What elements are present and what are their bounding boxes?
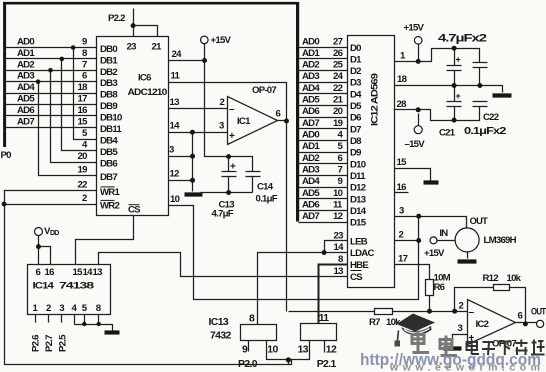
svg-text:OUT: OUT [531,307,546,318]
svg-text:13: 13 [298,345,309,356]
svg-text:P2.1: P2.1 [317,359,337,370]
svg-text:D3: D3 [350,78,361,89]
svg-text:7432: 7432 [210,331,232,342]
svg-text:0.1μF: 0.1μF [256,194,278,205]
svg-text:HBE: HBE [350,260,369,271]
svg-text:13: 13 [170,97,180,108]
svg-text:27: 27 [333,36,343,47]
svg-text:AD6: AD6 [17,105,34,116]
svg-text:24: 24 [333,71,344,82]
svg-text:2: 2 [82,193,87,204]
svg-text:DD: DD [50,230,59,237]
svg-text:WR1: WR1 [100,187,120,198]
svg-text:AD4: AD4 [17,82,35,93]
svg-text:D6: D6 [350,113,361,124]
svg-text:21: 21 [152,42,163,53]
svg-text:21: 21 [333,95,344,106]
svg-text:14: 14 [83,267,94,278]
svg-text:AD5: AD5 [302,188,320,199]
svg-text:P2.0: P2.0 [238,359,258,370]
svg-text:22: 22 [333,83,343,94]
svg-text:9: 9 [82,37,87,48]
svg-text:AD7: AD7 [302,211,319,222]
svg-text:LEB: LEB [350,237,368,248]
svg-text:8: 8 [249,314,255,325]
svg-text:23: 23 [334,231,344,242]
svg-text:AD7: AD7 [17,116,34,127]
svg-text:23: 23 [127,42,137,53]
svg-text:AD1: AD1 [302,48,320,59]
svg-text:AD3: AD3 [302,165,319,176]
svg-text:DB7: DB7 [100,172,117,183]
svg-text:IC1: IC1 [237,116,251,127]
svg-text:AD6: AD6 [302,106,319,117]
svg-text:AD6: AD6 [302,199,319,210]
svg-text:13: 13 [334,266,344,277]
svg-text:D15: D15 [350,218,367,229]
svg-text:–15V: –15V [405,139,426,150]
svg-text:10: 10 [267,345,278,356]
svg-text:AD3: AD3 [17,71,34,82]
svg-text:24: 24 [172,49,183,60]
svg-text:25: 25 [333,60,344,71]
svg-text:15: 15 [397,157,408,168]
svg-text:6: 6 [82,71,87,82]
svg-text:0.1μFx2: 0.1μFx2 [464,126,507,137]
svg-text:11: 11 [333,199,343,210]
svg-text:22: 22 [78,180,88,191]
svg-text:18: 18 [78,82,89,93]
svg-text:19: 19 [78,165,88,176]
svg-text:D14: D14 [350,206,367,217]
svg-text:20: 20 [78,151,88,162]
svg-text:7: 7 [82,59,87,70]
svg-text:D7: D7 [350,124,361,135]
svg-text:AD5: AD5 [302,95,320,106]
svg-text:AD2: AD2 [302,153,319,164]
svg-text:CS: CS [128,205,141,216]
svg-text:DB5: DB5 [100,147,118,158]
svg-text:IC14: IC14 [33,281,55,292]
svg-text:P2.6: P2.6 [31,335,42,352]
svg-text:LDAC: LDAC [350,248,374,259]
svg-text:R12: R12 [483,273,499,284]
svg-text:D10: D10 [350,159,366,170]
svg-text:AD0: AD0 [302,36,319,47]
svg-text:IC2: IC2 [476,319,489,330]
svg-text:R7: R7 [369,317,380,328]
svg-text:D11: D11 [350,171,366,182]
svg-text:15: 15 [73,267,84,278]
svg-text:6: 6 [36,267,41,278]
svg-text:C22: C22 [483,112,499,123]
svg-text:DB2: DB2 [100,67,117,78]
svg-text:OUT: OUT [470,216,488,227]
svg-text:16: 16 [397,182,407,193]
svg-text:AD5: AD5 [17,94,35,105]
svg-text:12: 12 [170,169,180,180]
svg-text:10: 10 [170,194,180,205]
svg-text:AD2: AD2 [17,59,34,70]
svg-text:AD7: AD7 [302,118,319,129]
svg-text:C21: C21 [439,128,456,139]
svg-text:DB9: DB9 [100,101,117,112]
svg-text:WR2: WR2 [100,201,119,212]
svg-text:+15V: +15V [404,23,425,34]
svg-text:3: 3 [219,121,224,132]
svg-text:14: 14 [334,242,345,253]
svg-text:DB8: DB8 [100,90,118,101]
svg-text:AD1: AD1 [302,141,320,152]
svg-text:19: 19 [333,118,343,129]
svg-text:2: 2 [220,97,225,108]
svg-text:12: 12 [326,345,337,356]
svg-text:9: 9 [242,345,248,356]
svg-text:AD4: AD4 [302,176,320,187]
svg-text:D1: D1 [350,54,362,65]
svg-text:AD2: AD2 [302,60,319,71]
svg-text:3: 3 [399,205,404,216]
svg-text:74138: 74138 [59,281,95,292]
svg-text:2: 2 [459,301,464,312]
svg-text:13: 13 [93,267,103,278]
svg-text:AD3: AD3 [302,71,319,82]
svg-text:D2: D2 [350,66,361,77]
svg-text:IN: IN [439,228,448,239]
svg-text:D12: D12 [350,183,366,194]
svg-text:18: 18 [397,74,408,85]
svg-text:P2.2: P2.2 [108,13,125,24]
svg-text:15: 15 [78,116,89,127]
svg-text:LM369H: LM369H [484,235,517,246]
svg-text:17: 17 [398,253,408,264]
svg-text:4.7μF: 4.7μF [212,209,234,220]
svg-text:+15V: +15V [424,248,445,259]
svg-text:D9: D9 [350,148,361,159]
svg-text:2: 2 [46,303,51,314]
svg-text:D13: D13 [350,194,366,205]
svg-text:+15V: +15V [211,35,232,46]
svg-text:P2.7: P2.7 [44,335,55,352]
svg-text:14: 14 [170,121,181,132]
svg-text:16: 16 [45,267,55,278]
svg-text:26: 26 [333,48,343,59]
svg-text:ADC1210: ADC1210 [128,87,167,98]
svg-text:11: 11 [171,71,181,82]
svg-text:+: + [456,91,461,101]
svg-text:2: 2 [399,229,404,240]
svg-text:P0: P0 [1,150,12,161]
svg-text:3: 3 [169,145,174,156]
svg-text:DB1: DB1 [100,55,118,66]
svg-text:AD0: AD0 [17,37,34,48]
svg-text:CS: CS [350,272,363,283]
svg-text:10: 10 [333,188,343,199]
svg-text:DB11: DB11 [100,124,122,135]
svg-text:4.7μFx2: 4.7μFx2 [438,33,487,45]
svg-text:AD0: AD0 [302,130,319,141]
svg-text:DB10: DB10 [100,112,122,123]
svg-text:D5: D5 [350,101,362,112]
svg-text:3: 3 [458,323,463,334]
svg-text:D4: D4 [350,89,362,100]
svg-text:7: 7 [338,165,343,176]
svg-text:C14: C14 [257,182,274,193]
svg-text:DB3: DB3 [100,78,117,89]
svg-text:12: 12 [333,211,343,222]
svg-text:OP-07: OP-07 [252,85,276,96]
svg-text:17: 17 [78,94,88,105]
svg-text:3: 3 [59,303,64,314]
svg-text:DB4: DB4 [100,136,118,147]
svg-text:6: 6 [518,311,523,322]
svg-text:16: 16 [78,105,88,116]
svg-text:D8: D8 [350,136,362,147]
svg-text:6: 6 [338,153,343,164]
svg-text:10k: 10k [507,273,522,284]
svg-text:28: 28 [397,99,408,110]
svg-text:IC12 AD569: IC12 AD569 [370,74,381,126]
svg-text:IC6: IC6 [138,73,151,84]
svg-text:+: + [456,55,461,65]
svg-text:11: 11 [319,313,330,324]
svg-text:AD4: AD4 [302,83,320,94]
svg-text:9: 9 [338,176,343,187]
svg-text:D0: D0 [350,43,361,54]
svg-text:20: 20 [333,106,343,117]
svg-text:6: 6 [276,109,281,120]
svg-text:DB0: DB0 [100,44,117,55]
svg-text:IC13: IC13 [209,317,229,328]
svg-text:R6: R6 [434,282,445,293]
svg-text:P2.5: P2.5 [58,334,69,352]
svg-text:AD1: AD1 [17,48,35,59]
svg-text:DB6: DB6 [100,159,117,170]
